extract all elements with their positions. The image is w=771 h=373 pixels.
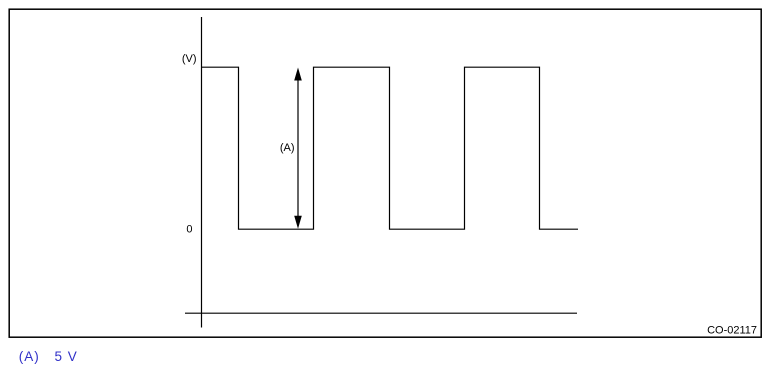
svg-text:(V): (V): [182, 53, 197, 65]
svg-text:5 V: 5 V: [55, 349, 78, 364]
svg-text:CO-02117: CO-02117: [707, 325, 757, 337]
svg-text:(A): (A): [280, 142, 295, 154]
svg-text:0: 0: [186, 224, 192, 236]
svg-text:(A): (A): [19, 349, 40, 364]
